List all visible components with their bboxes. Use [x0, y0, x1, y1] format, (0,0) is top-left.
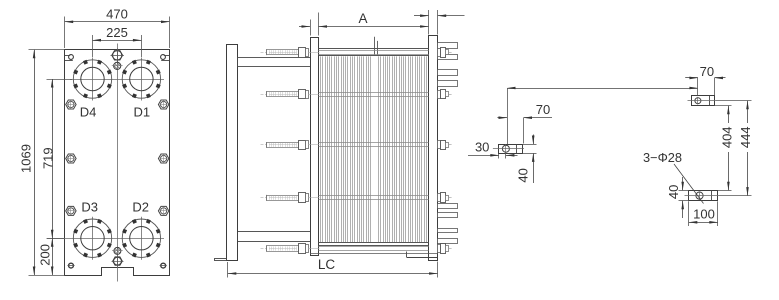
fixed plate thickness arrows [414, 14, 465, 17]
svg-text:404: 404 [719, 126, 734, 148]
dim 100 ext [689, 201, 718, 226]
tie bolt row 2 [261, 90, 453, 99]
dim 70 left text [536, 102, 550, 117]
svg-text:D1: D1 [133, 105, 150, 120]
dim 225 extension lines [93, 35, 142, 57]
dim 444 text [738, 126, 753, 148]
top center nut [111, 49, 124, 62]
dim 225 text [106, 25, 128, 40]
port D2 flange [122, 217, 161, 260]
detail connector extension [507, 88, 509, 144]
dim 40 bottom arrows [681, 177, 684, 218]
plate pack hatching [321, 56, 427, 242]
dim 404 ext [715, 106, 732, 191]
dim 40 bottom text [666, 185, 681, 199]
top-right hanger slot [161, 55, 170, 61]
lower pipe stub 4 [438, 239, 458, 244]
tie bolt row 1 [261, 48, 453, 58]
svg-text:LC: LC [318, 257, 336, 272]
support column [227, 45, 238, 261]
top-left hanger slot [65, 55, 74, 61]
top foot hole [688, 97, 717, 105]
side clamp nut 1 [66, 100, 76, 109]
top foot plate [692, 96, 715, 106]
upper pipe stub 2 [438, 55, 458, 60]
side clamp nut 6 [158, 206, 168, 215]
left foot hole [493, 144, 524, 153]
side clamp nut 3 [66, 154, 76, 163]
dim 30 ext [499, 153, 506, 159]
dim LC line [228, 272, 438, 275]
lower pipe stub 2 [438, 213, 458, 218]
svg-text:A: A [358, 11, 367, 26]
dim A text [358, 11, 367, 26]
dim 1069 line [33, 50, 36, 275]
svg-text:225: 225 [106, 25, 128, 40]
left foot plate [499, 144, 523, 154]
tie bolt row 4 [261, 193, 453, 203]
dim 40 bottom ext [679, 191, 689, 201]
dim 444 line [746, 101, 749, 196]
dim 470 text [106, 7, 128, 22]
top ports horizontal centerline [70, 79, 164, 81]
bottom-left hole [67, 263, 74, 268]
top center threaded hole [112, 62, 123, 69]
plate pack bottom edge [319, 243, 429, 246]
dim 200 text [38, 244, 53, 266]
lower pipe stub 1 [438, 204, 458, 209]
label D3 [81, 199, 98, 214]
lower pipe stub 3 [438, 229, 458, 233]
dim 719 text [41, 147, 56, 169]
plate frame outline [65, 50, 170, 276]
svg-text:100: 100 [693, 207, 715, 222]
port D4 flange [73, 58, 112, 101]
leader 3-phi28 [674, 164, 704, 204]
bottom foot plate [689, 190, 718, 201]
svg-text:30: 30 [475, 140, 489, 155]
bottom center threaded hole [112, 247, 123, 254]
label 3-phi28 [643, 150, 682, 165]
svg-text:D4: D4 [80, 105, 97, 120]
dim 200 line [51, 238, 54, 275]
lower guide bar [238, 232, 311, 242]
side clamp nut 2 [158, 100, 168, 109]
svg-text:470: 470 [106, 7, 128, 22]
dim 70 left arrows [497, 116, 552, 119]
dim 470 extension lines [65, 17, 170, 49]
dim 225 line [93, 39, 142, 42]
label D4 [80, 105, 97, 120]
port D3 flange [73, 217, 112, 260]
dim 70 left ext [523, 118, 525, 144]
dim 30 text [475, 140, 489, 155]
dim 100 line [689, 221, 718, 224]
plate vertical centerline [117, 44, 119, 282]
dim 40 left arrows [532, 135, 535, 184]
side clamp nut 5 [66, 206, 76, 215]
svg-text:70: 70 [536, 102, 550, 117]
svg-text:3−Φ28: 3−Φ28 [643, 150, 682, 165]
tie bolt row 3 [261, 141, 453, 150]
svg-text:D3: D3 [81, 199, 98, 214]
upper carrying bar [238, 58, 311, 67]
port D1 flange [122, 58, 161, 101]
svg-text:200: 200 [38, 244, 53, 266]
svg-text:719: 719 [41, 147, 56, 169]
pack middle marker [375, 37, 378, 56]
dim 30 arrows [468, 154, 518, 157]
svg-text:40: 40 [516, 168, 531, 182]
dim 444 ext [716, 101, 752, 196]
support column foot [215, 259, 227, 261]
side clamp nut 4 [158, 154, 168, 163]
dim 70 top text [700, 64, 714, 79]
upper pipe stub 4 [438, 81, 458, 87]
plate pack top edge [319, 49, 429, 56]
svg-text:70: 70 [700, 64, 714, 79]
label D2 [132, 199, 149, 214]
dim 1069 extension lines [29, 50, 65, 276]
dim 719 line [51, 79, 54, 238]
svg-text:1069: 1069 [19, 144, 34, 173]
dim 40 left text [516, 168, 531, 182]
dim 70 top arrows [685, 77, 725, 80]
bottom-right hole [160, 263, 167, 268]
dim LC text [318, 257, 336, 272]
svg-text:40: 40 [666, 185, 681, 199]
movable pressure plate [311, 38, 319, 256]
movable plate thickness arrow [299, 25, 310, 28]
upper pipe stub 1 [438, 43, 458, 49]
svg-text:444: 444 [738, 126, 753, 148]
dim 40 left ext [523, 145, 537, 154]
dim 70 top ext [698, 78, 715, 95]
dim 100 text [693, 207, 715, 222]
tie bolt row 5 [261, 244, 453, 254]
dim A line [319, 25, 429, 28]
bottom foot hole [685, 191, 720, 200]
dim 470 line [65, 21, 170, 24]
label D1 [133, 105, 150, 120]
fixed plate foot bracket [310, 252, 438, 258]
dim A extension lines [311, 10, 438, 36]
dim LC extension lines [228, 262, 438, 278]
dim 719 extension lines [47, 80, 73, 239]
bottom center nut [112, 255, 124, 266]
fixed frame plate [429, 36, 438, 261]
bottom ports horizontal centerline [47, 238, 164, 240]
dim 1069 text [19, 144, 34, 173]
detail connector line [507, 87, 698, 90]
dim 404 line [727, 106, 730, 191]
dim 404 text [719, 126, 734, 148]
svg-text:D2: D2 [132, 199, 149, 214]
upper pipe stub 3 [438, 70, 458, 76]
